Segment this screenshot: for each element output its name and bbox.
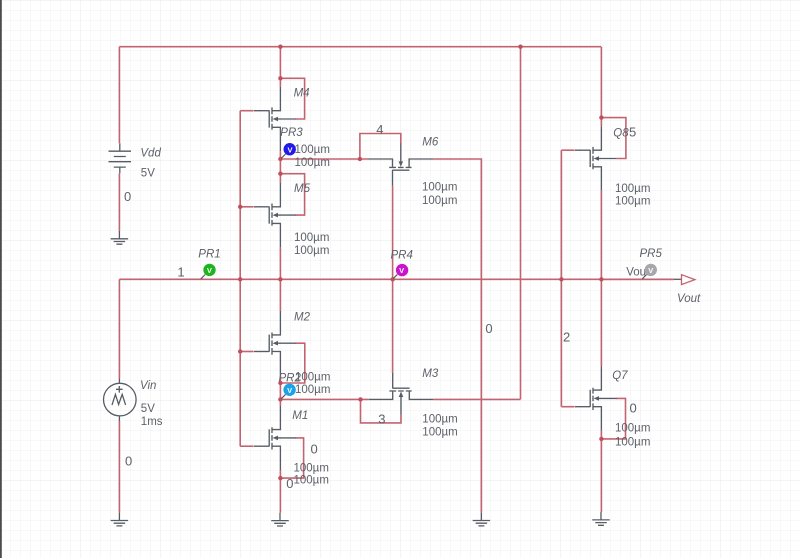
svg-text:100µm: 100µm bbox=[615, 183, 650, 195]
probe PR4 bbox=[393, 264, 408, 279]
wire net PR3 horizontal to M6 bbox=[280, 158, 368, 160]
wire M1 bulk loop bbox=[280, 438, 303, 478]
svg-text:0: 0 bbox=[125, 454, 132, 469]
ground M1 bbox=[271, 513, 289, 526]
wire vdd battery bottom to ground bbox=[118, 173, 120, 231]
probe PR3 bbox=[281, 143, 296, 158]
wire rail corner to Q8 drain bbox=[600, 47, 602, 127]
svg-text:M6: M6 bbox=[422, 137, 439, 149]
wire net 3 horizontal bbox=[280, 398, 368, 400]
junction M1 bulk tie bbox=[278, 476, 282, 480]
source Vin bbox=[104, 378, 137, 421]
wire top rail VDD bbox=[119, 46, 601, 48]
svg-text:1ms: 1ms bbox=[141, 416, 163, 428]
wire M2 source down net PR2 bbox=[279, 376, 281, 400]
transistor M4 bbox=[254, 87, 296, 152]
ground Q7 bbox=[592, 512, 610, 525]
ground vdd bbox=[111, 231, 128, 244]
svg-text:M4: M4 bbox=[294, 88, 310, 100]
svg-text:100µm: 100µm bbox=[615, 437, 650, 449]
junction node PR3 bbox=[278, 157, 282, 161]
svg-text:Vout: Vout bbox=[677, 293, 701, 305]
wire net 2 column bbox=[560, 150, 562, 407]
svg-text:4: 4 bbox=[376, 122, 383, 137]
wire M4 bulk loop bbox=[280, 78, 304, 119]
wire Q8 source to vout bbox=[600, 191, 602, 279]
junction net 4 tap bbox=[358, 157, 362, 161]
junction net 2 mid wire bbox=[559, 277, 563, 281]
wire Q7 source to ground bbox=[600, 431, 602, 512]
wire vout to Q7 drain bbox=[600, 279, 602, 366]
wire gate bus vertical bbox=[239, 111, 241, 447]
junction gate bus mid wire bbox=[238, 277, 242, 281]
transistor M6 bbox=[369, 144, 434, 186]
probe PR5 bbox=[642, 264, 657, 279]
wire M5 source to mid bbox=[279, 247, 281, 279]
wire M1 gate tap bbox=[240, 445, 253, 447]
svg-text:0: 0 bbox=[485, 321, 492, 336]
svg-text:5V: 5V bbox=[141, 167, 155, 179]
transistor M3 bbox=[369, 373, 434, 415]
output pin Vout bbox=[674, 275, 695, 285]
junction rail column x521 bbox=[518, 45, 522, 49]
junction M4 bulk tie bbox=[278, 76, 282, 80]
wire M3 right to rail column bbox=[433, 398, 520, 400]
svg-text:M1: M1 bbox=[292, 410, 308, 422]
svg-text:V: V bbox=[207, 266, 212, 275]
wire left column to Vin bbox=[118, 279, 120, 378]
svg-text:100µm: 100µm bbox=[422, 182, 457, 194]
wire rail to M4 drain bbox=[279, 47, 281, 87]
wire M5 gate tap bbox=[240, 206, 253, 208]
junction M2 bulk tie bbox=[278, 381, 282, 385]
svg-text:3: 3 bbox=[378, 412, 385, 427]
svg-text:V: V bbox=[648, 266, 653, 275]
wire M5 bulk loop bbox=[280, 174, 304, 215]
ground vin bbox=[111, 513, 128, 526]
svg-text:M5: M5 bbox=[294, 183, 311, 195]
junction M2 gate tap bbox=[238, 349, 242, 353]
wire M4 gate tap bbox=[240, 110, 253, 112]
wire mid to M2 drain bbox=[279, 279, 281, 311]
wire net 4 loop M6 bulk bbox=[360, 134, 401, 160]
wire Q7 gate tap bbox=[561, 406, 574, 408]
transistor M1 bbox=[254, 406, 296, 471]
svg-text:100µm: 100µm bbox=[294, 232, 329, 244]
wire net 3 loop M3 bulk bbox=[361, 399, 402, 423]
wire Q7 bulk loop bbox=[601, 398, 626, 439]
junction node PR2 bbox=[278, 397, 282, 401]
junction node PR4 bbox=[391, 277, 395, 281]
svg-text:PR3: PR3 bbox=[280, 127, 303, 139]
wire Vin to ground bbox=[118, 421, 120, 513]
svg-text:1: 1 bbox=[177, 265, 184, 280]
svg-text:M2: M2 bbox=[294, 312, 311, 324]
svg-text:100µm: 100µm bbox=[422, 427, 457, 439]
transistor M5 bbox=[254, 183, 296, 248]
svg-text:0: 0 bbox=[286, 476, 293, 491]
svg-text:2: 2 bbox=[563, 330, 570, 345]
junction M5 gate tap bbox=[238, 205, 242, 209]
svg-text:100µm: 100µm bbox=[295, 157, 330, 169]
svg-text:100µm: 100µm bbox=[294, 475, 329, 487]
svg-text:Q7: Q7 bbox=[612, 370, 628, 382]
svg-text:100µm: 100µm bbox=[295, 384, 330, 396]
svg-text:V: V bbox=[399, 266, 404, 275]
svg-text:5V: 5V bbox=[141, 403, 155, 415]
wire PR2 to M1 drain bbox=[279, 399, 281, 405]
svg-text:PR1: PR1 bbox=[198, 249, 220, 261]
junction node 1 center column bbox=[278, 277, 282, 281]
junction net 3 tap bbox=[358, 397, 362, 401]
svg-text:100µm: 100µm bbox=[294, 245, 329, 257]
wire mid net 1 horizontal bbox=[119, 278, 674, 280]
transistor M2 bbox=[254, 311, 296, 376]
junction Vout column bbox=[599, 277, 603, 281]
junction rail M4 drain bbox=[278, 45, 282, 49]
svg-text:100µm: 100µm bbox=[615, 196, 650, 208]
wire vdd battery top bbox=[118, 47, 120, 144]
probe PR1 bbox=[201, 264, 216, 279]
wire M6 right to ground column bbox=[433, 159, 481, 513]
svg-text:100µm: 100µm bbox=[295, 144, 330, 156]
wire Q8 bulk loop bbox=[601, 118, 626, 159]
svg-text:100µm: 100µm bbox=[294, 463, 329, 475]
svg-text:5: 5 bbox=[629, 125, 636, 140]
wire M6 gate down to mid net and M3 gate bbox=[392, 185, 394, 373]
wire M4 source to net PR3 bbox=[279, 151, 281, 173]
wire M2 gate tap bbox=[240, 351, 253, 353]
svg-text:PR5: PR5 bbox=[640, 248, 663, 260]
svg-text:100µm: 100µm bbox=[422, 195, 457, 207]
svg-text:M3: M3 bbox=[422, 368, 439, 380]
svg-text:0: 0 bbox=[311, 441, 318, 456]
transistor Q7 bbox=[575, 366, 617, 431]
svg-text:0: 0 bbox=[630, 401, 637, 416]
svg-text:PR4: PR4 bbox=[391, 250, 413, 262]
ground column 0 bbox=[473, 513, 491, 526]
junction Q8 bulk tie net 5 bbox=[599, 115, 603, 119]
svg-text:Vdd: Vdd bbox=[140, 147, 161, 159]
probe PR2 bbox=[281, 384, 296, 399]
svg-text:V: V bbox=[287, 146, 292, 155]
junction Q7 bulk tie bbox=[599, 437, 603, 441]
svg-text:Vin: Vin bbox=[140, 380, 156, 392]
svg-text:Q8: Q8 bbox=[613, 128, 629, 140]
junction M5 bulk tie bbox=[278, 172, 282, 176]
battery V1 Vdd bbox=[109, 143, 132, 173]
wire vout to arrow bbox=[601, 278, 674, 280]
wire M5 drain red part bbox=[279, 174, 281, 183]
svg-text:PR2: PR2 bbox=[279, 373, 302, 385]
svg-text:0: 0 bbox=[124, 189, 131, 204]
wire M2 bulk loop bbox=[280, 343, 304, 383]
transistor Q8 bbox=[575, 126, 617, 191]
wire M1 source to ground bbox=[279, 470, 281, 513]
wire rail column x521 bbox=[520, 47, 522, 400]
svg-text:100µm: 100µm bbox=[615, 423, 650, 435]
wire Q8 gate tap bbox=[561, 149, 574, 151]
svg-text:V: V bbox=[287, 386, 292, 395]
svg-text:100µm: 100µm bbox=[422, 414, 457, 426]
